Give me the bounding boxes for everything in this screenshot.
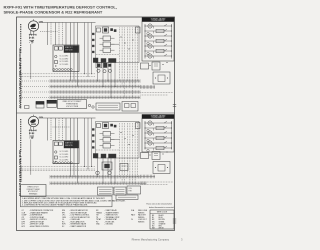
unit schematic box header (sheet 2) (142, 114, 174, 119)
defrost thermostat DFT1 box (153, 72, 170, 84)
svg-text:SC 21.5 MFD: SC 21.5 MFD (60, 154, 69, 156)
defrost control top component row (97, 123, 141, 129)
terminal strip TS2-B (comb) (50, 182, 146, 185)
terminal strip stub (right, sheet 1) (141, 85, 156, 89)
wire-nut splices row (53, 162, 72, 164)
wire: fan motor lead down to terminal strip (30, 140, 32, 175)
dotted field wires (lower right) (141, 182, 174, 185)
defrost control board DFC2 outline (96, 122, 140, 159)
low-voltage dotted bus wires (21, 167, 96, 171)
svg-text:defrost thermostat is connecte: defrost thermostat is connected. (149, 206, 174, 209)
fan motor OFM1 (circle symbol) (28, 19, 43, 31)
svg-text:BL: BL (152, 217, 154, 219)
legend column 3 (96, 209, 120, 226)
crankcase heater box (lower sheet) (127, 186, 141, 194)
svg-text:WIRE COLOR: WIRE COLOR (157, 212, 168, 214)
svg-text:SC 21.5 MFD: SC 21.5 MFD (60, 58, 69, 60)
fan motor leads / wire (29, 127, 37, 135)
dashed leads below fan motor (29, 36, 33, 43)
ground symbol (30, 41, 34, 43)
dashed low-volt run from motor (53, 126, 71, 128)
start components box (run capacitor / start relay) sheet 1 (53, 45, 79, 72)
defrost relay DFR box (lower sheet) (102, 162, 112, 170)
relay coils inside defrost control (100, 36, 115, 53)
contactor CC1 box (below schematic) (141, 63, 149, 69)
wire: motor to control (top run) (39, 117, 96, 119)
wire color code box (150, 210, 174, 230)
defrost control bottom terminals (93, 58, 116, 63)
relay coil circles below defrost control (upper sheet) (97, 69, 112, 73)
divider between upper and lower diagrams (17, 112, 175, 114)
defrost control board DFC1 outline (96, 26, 140, 63)
diagram sheet border frame (17, 17, 175, 231)
svg-text:SEE NOTE: SEE NOTE (65, 145, 73, 147)
svg-text:SC 21.5 MFD: SC 21.5 MFD (60, 157, 69, 159)
relay block (upper sheet) (36, 102, 44, 109)
defrost control left terminals (92, 33, 94, 53)
svg-text:SC 21.5 MFD: SC 21.5 MFD (60, 159, 69, 161)
wire risers to bus (84, 23, 92, 77)
start components box (run capacitor / start relay) sheet 2 (53, 141, 79, 164)
start-kit internal parts (55, 151, 69, 162)
capacitor symbols (upper sheet) (88, 104, 94, 108)
wire: motor to control (top run) (39, 22, 96, 24)
vertical drawing-number dash strip (lower sheet) (20, 119, 22, 152)
transformer block (upper sheet) (47, 100, 57, 107)
junction dots near contactor (149, 151, 167, 155)
svg-text:SINGLE-PHASE CONDENSOR & R22 R: SINGLE-PHASE CONDENSOR & R22 REFRIGERANT (4, 9, 103, 14)
control relay box (lower sheet) (120, 164, 128, 171)
wire drops to terminal strips (71, 118, 78, 183)
dashed riser along left border (21, 167, 23, 183)
legend column 2 (62, 209, 90, 228)
terminal strip stub (right, sheet 2) (141, 175, 156, 179)
pilot components below defrost control (upper sheet) (96, 63, 111, 68)
svg-text:92-101925-81-00 REV 0 TIME: 92-101925-81-00 REV 0 TIME TEMP DEFROST (19, 48, 22, 108)
schematic ladder rails (145, 121, 172, 150)
dashed low-volt run from motor (40, 31, 58, 33)
svg-text:WIRING: WIRING (138, 221, 145, 223)
dashed riser along left border (21, 74, 23, 100)
dashed leads below fan motor (29, 132, 33, 139)
wire risers to bus (84, 118, 92, 169)
dotted field wires (lower right) (141, 93, 174, 96)
terminal strip TS1-D (comb) (22, 96, 140, 99)
svg-text:CONNECT THERM: CONNECT THERM (26, 189, 40, 191)
defrost control internal wiring (96, 123, 138, 183)
defrost termination switch box (lower sheet) (116, 195, 138, 199)
control relay CR1 box (152, 62, 160, 70)
solenoid coils (lower sheet) (96, 171, 112, 175)
fan motor leads / wire (29, 31, 37, 39)
svg-text:SC 21.5 MFD: SC 21.5 MFD (60, 64, 69, 66)
svg-text:WHITE: WHITE (159, 228, 164, 230)
svg-text:SC 21.5 MFD: SC 21.5 MFD (60, 61, 69, 63)
drain pan heater (lower sheet) (114, 187, 126, 195)
registration ticks on right border (173, 105, 176, 224)
schematic ladder rails (145, 24, 172, 59)
unit schematic box header (sheet 1) (142, 17, 174, 22)
relay coils inside defrost control (100, 132, 115, 149)
contactor CC2 box (below schematic) (141, 153, 149, 159)
wire drops to terminal strips (71, 23, 78, 87)
wire drops to start-kit box (48, 118, 67, 141)
wire-nut splices row (53, 68, 72, 70)
svg-text:FACT: FACT (131, 214, 135, 217)
legend column 4 (131, 209, 148, 223)
svg-text:WIRES DO NOT: WIRES DO NOT (27, 186, 38, 188)
terminal strip TS1-C (comb) (22, 90, 140, 93)
note box (upper sheet) (58, 100, 87, 109)
defrost control bottom terminals (93, 154, 116, 159)
wires: control box to terminal strips (97, 158, 115, 184)
svg-text:- GROUND: - GROUND (105, 224, 114, 226)
numbered installation notes (22, 197, 126, 207)
defrost control left terminals (92, 129, 94, 149)
low-voltage dotted bus wires (21, 74, 96, 77)
terminal glyph (upper sheet, far left) (25, 106, 30, 109)
svg-text:SC 21.5 MFD: SC 21.5 MFD (60, 151, 69, 153)
installation notes box (21, 196, 113, 207)
wires: control box to terminal strips (97, 62, 115, 98)
svg-text:Rheem Manufacturing Company: Rheem Manufacturing Company (132, 237, 170, 241)
junction dots near contactor (149, 62, 167, 66)
wire drops to start-kit box (48, 23, 67, 46)
svg-text:- HIGH PRESS CONTROL: - HIGH PRESS CONTROL (29, 226, 49, 228)
legend column 1 (22, 209, 55, 228)
svg-text:BROWN: BROWN (159, 219, 166, 221)
svg-text:SEE NOTE: SEE NOTE (65, 49, 73, 51)
terminal strip TS1-B (comb) (22, 85, 140, 88)
svg-text:These wires to be removed when: These wires to be removed when (146, 202, 172, 205)
start-kit label block (dark) (64, 46, 79, 53)
start-kit label block (dark) (64, 141, 79, 148)
defrost control top component row (97, 27, 141, 33)
schematic ladder rungs with loads (145, 24, 173, 59)
svg-text:- START CAPACITOR: - START CAPACITOR (70, 225, 87, 228)
terminal strip TS2-A (comb) (50, 175, 140, 178)
svg-text:GREEN: GREEN (159, 221, 166, 223)
svg-text:WIRES DO NOT CONNECT: WIRES DO NOT CONNECT (63, 101, 82, 103)
svg-text:SC 21.5 MFD: SC 21.5 MFD (60, 56, 69, 58)
note box (lower sheet) (21, 185, 47, 197)
svg-text:BLUE: BLUE (159, 217, 163, 219)
svg-text:LOW VOLT TERM: LOW VOLT TERM (66, 106, 79, 108)
defrost control internal wiring (96, 28, 138, 98)
svg-text:BR BK: BR BK (29, 133, 35, 135)
svg-text:BR BK: BR BK (29, 37, 35, 39)
defrost thermostat DFT2 box (153, 162, 170, 174)
contactor box (upper sheet, bottom) (122, 102, 138, 112)
unit schematic box body (142, 22, 174, 62)
unit schematic box body (142, 119, 174, 153)
start-kit internal parts (55, 55, 69, 66)
compressor heater bar (upper sheet) (96, 103, 120, 110)
control relay CR2 box (152, 152, 160, 160)
defrost heater element (lower sheet) (98, 187, 114, 195)
svg-text:4. COMPRESSOR PROTECTED UNDER: 4. COMPRESSOR PROTECTED UNDER PRIMARY SI… (22, 204, 88, 207)
vertical drawing-number dash strip (upper sheet) (20, 24, 22, 54)
ground symbol (30, 136, 34, 138)
wire: fan motor lead down to terminal strip (30, 44, 32, 79)
terminal strip TS1-A (comb) (22, 79, 140, 82)
note (italic, right) (146, 202, 174, 209)
schematic ladder rungs with loads (145, 121, 173, 152)
fan motor OFM2 (circle symbol) (28, 115, 43, 127)
svg-text:CCH: CCH (129, 188, 132, 190)
